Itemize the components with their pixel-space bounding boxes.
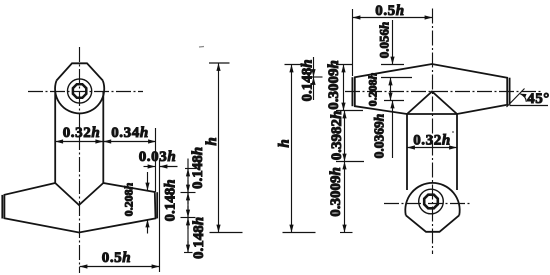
svg-text:h: h xyxy=(204,137,220,145)
chain bar y=192.3 xyxy=(181,192,196,194)
dimension 0.32h right arrow pair at stem edge xyxy=(96,141,103,143)
svg-text:0.03h: 0.03h xyxy=(139,149,177,165)
svg-text:0.32h: 0.32h xyxy=(63,125,101,141)
0.148h chain dimension line xyxy=(187,159,189,253)
svg-text:0.148h: 0.148h xyxy=(191,217,207,259)
svg-text:0.056h: 0.056h xyxy=(377,22,392,58)
svg-text:0.3009h: 0.3009h xyxy=(326,60,342,110)
right view head middle circle xyxy=(419,189,444,214)
dimension 0.148h right view xyxy=(313,57,315,77)
stray scan speck xyxy=(452,131,454,133)
bar for 0.148h right view xyxy=(308,76,323,78)
dimension 0.056h xyxy=(392,20,394,65)
h dimension line xyxy=(218,63,220,233)
bar y=110.5 xyxy=(336,110,363,112)
left view horizontal centerline xyxy=(28,91,143,93)
right view head inner octagon xyxy=(424,195,438,209)
right view vertical centerline xyxy=(432,9,434,255)
svg-text:0.148h: 0.148h xyxy=(162,179,178,221)
extension line 0.5h left xyxy=(352,9,354,76)
chain bar y=252.3 xyxy=(184,252,193,254)
left view flange outline xyxy=(4,183,155,233)
right view head polygon bottom xyxy=(406,215,459,232)
chain bar y=217.8 xyxy=(181,217,196,219)
svg-text:0.34h: 0.34h xyxy=(111,125,149,141)
dimension 0.5h top xyxy=(353,17,433,19)
svg-text:45°: 45° xyxy=(527,91,550,107)
reference bar y=77.5 xyxy=(381,77,412,79)
right view head base circle arc xyxy=(405,183,459,215)
h dimension top reference bar xyxy=(209,62,230,64)
dimension 0.3009h bottom xyxy=(344,162,346,233)
right view stem right edge xyxy=(456,114,458,190)
right view flange left end outer face line xyxy=(351,77,353,106)
dimension 0.32h right view xyxy=(407,147,457,149)
svg-text:0.148h: 0.148h xyxy=(299,59,315,101)
top reference line right view xyxy=(285,64,304,66)
h dimension bottom reference bar xyxy=(210,232,243,234)
left view stem right edge xyxy=(102,92,104,183)
left view head outline (polygon top + circular base arc) xyxy=(57,63,103,80)
svg-text:0.32h: 0.32h xyxy=(413,133,451,149)
45 degree arc xyxy=(520,94,526,102)
dimension 0.03h arrows xyxy=(144,166,156,168)
faint scan speck xyxy=(199,46,204,49)
right view flange horizontal centerline xyxy=(345,91,542,93)
dimension 0.0369h xyxy=(392,101,394,159)
left view head inner octagon xyxy=(73,84,86,97)
left view flange right end outer face line xyxy=(156,192,158,218)
chain arrows xyxy=(187,169,189,175)
left view stem left edge xyxy=(54,92,56,183)
right view flange right end outer face line xyxy=(509,78,511,105)
left view head middle circle xyxy=(68,79,92,103)
svg-text:0.3982h: 0.3982h xyxy=(329,111,345,161)
svg-text:0.208h: 0.208h xyxy=(366,72,380,106)
reference bar y=100.5 xyxy=(384,100,404,102)
right view flange outline xyxy=(355,64,507,114)
extension line for 0.34h right end xyxy=(155,128,157,192)
45 degree horizontal reference line xyxy=(510,105,549,107)
svg-text:0.148h: 0.148h xyxy=(190,147,206,189)
dimension 0.5h bottom xyxy=(80,266,160,268)
left view vertical centerline xyxy=(79,47,81,273)
svg-text:0.3009h: 0.3009h xyxy=(328,167,344,217)
peak reference bar xyxy=(381,64,404,66)
dimension 0.208h right view xyxy=(390,78,392,101)
chain bar y=168.5 xyxy=(185,168,196,170)
dimension 0.3009h top right view xyxy=(343,65,345,111)
left view head base circle arc xyxy=(55,81,104,114)
left view V notch xyxy=(55,183,103,205)
right view lambda ridge xyxy=(407,92,457,115)
right view stem left edge xyxy=(406,114,408,190)
bottom reference line right view xyxy=(283,232,316,234)
h dimension right view xyxy=(291,65,293,233)
svg-text:0.5h: 0.5h xyxy=(102,250,132,266)
45 degree chamfer leader line xyxy=(507,89,525,108)
dimension 0.32h / 0.34h line xyxy=(55,141,156,143)
extension line 0.5h right xyxy=(159,160,161,273)
dimension 0.208h arrows xyxy=(147,172,149,191)
right view head horizontal centerline xyxy=(384,203,471,205)
left view flange left end outer face line xyxy=(1,195,3,219)
svg-text:h: h xyxy=(277,139,293,147)
dimension 0.3982h xyxy=(344,111,346,162)
svg-text:0.0369h: 0.0369h xyxy=(372,114,387,159)
svg-text:0.5h: 0.5h xyxy=(375,3,405,19)
bar y=161.5 xyxy=(336,161,364,163)
svg-text:0.208h: 0.208h xyxy=(122,182,136,216)
